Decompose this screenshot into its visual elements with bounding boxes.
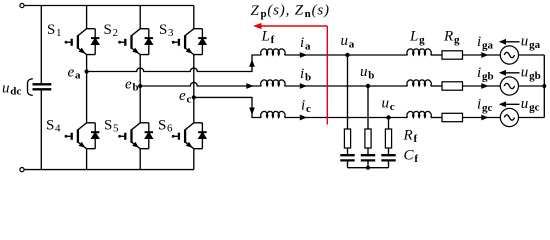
- wire: phase b Rg to source: [463, 85, 501, 87]
- arrow: iga: [481, 52, 488, 58]
- node ub: [366, 84, 370, 88]
- transistor S5 (IGBT with antiparallel diode): [118, 123, 153, 149]
- inductor Lg phase a: [407, 49, 431, 55]
- capacitor Cf branch a: [340, 155, 354, 160]
- resistor Rg phase b: [442, 82, 463, 90]
- source ugb (grid voltage): [500, 77, 518, 95]
- wire: leg b emitter lead to bottom rail: [139, 149, 141, 170]
- terminal: positive DC input circle: [20, 3, 24, 7]
- wire: phase a Lg to Rg: [431, 54, 442, 56]
- red impedance measurement line Zp Zn: [256, 26, 327, 125]
- wire: leg b midpoint vertical: [139, 55, 141, 123]
- resistor Rf branch b: [365, 129, 371, 148]
- source ugc (grid voltage): [500, 108, 518, 126]
- wire: branch c resistor to capacitor: [388, 148, 390, 155]
- wire: phase a Rg to source: [463, 54, 501, 56]
- wire: DC-link capacitor branch lower: [40, 90, 42, 169]
- wire: leg c emitter lead to bottom rail: [193, 149, 195, 170]
- arrow: ia: [300, 52, 307, 58]
- arrow: uga voltage reference: [503, 41, 520, 43]
- resistor Rg phase c: [442, 113, 463, 121]
- wire: phase b Lf to ub: [285, 85, 369, 87]
- inductor Lf phase a: [261, 49, 285, 55]
- wire: phase c Lg to Rg: [431, 117, 442, 119]
- inductor Lf phase c: [261, 111, 285, 117]
- wire: phase b source to right bus: [519, 85, 545, 87]
- wire: phase a from ea with hops over legs b,c then jog up: [87, 55, 262, 72]
- wire: branch b resistor to capacitor: [367, 148, 369, 155]
- wire: branch a capacitor to star bus: [347, 160, 349, 167]
- inductor Lf phase b: [261, 80, 285, 86]
- arrow: igb: [481, 83, 488, 89]
- wire: phase c Lf to uc: [285, 117, 389, 119]
- wire: leg b collector lead from top rail: [139, 6, 141, 29]
- arrow: ugb voltage reference: [503, 72, 520, 74]
- wire: leg a emitter lead to bottom rail: [86, 149, 88, 170]
- source uga (grid voltage): [500, 46, 518, 64]
- transistor S3 (IGBT with antiparallel diode): [172, 29, 207, 55]
- wire: leg c midpoint vertical: [193, 55, 195, 123]
- node: star-point junction: [366, 166, 370, 170]
- node ea: [85, 69, 89, 73]
- arrow: ic: [300, 115, 307, 121]
- transistor S2 (IGBT with antiparallel diode): [118, 29, 153, 55]
- wire: shunt branch b down from ub: [367, 86, 369, 129]
- arrow: phase a current up: [249, 60, 255, 67]
- brace for udc voltage: [28, 79, 33, 96]
- arrow: phase b current: [246, 83, 253, 89]
- capacitor Cf branch b: [361, 155, 375, 160]
- wire: grid neutral bus right: [543, 55, 545, 118]
- wire: leg c collector lead from top rail: [193, 6, 195, 29]
- wire: DC-link capacitor branch upper: [40, 6, 42, 84]
- wire: branch b capacitor to star bus: [367, 160, 369, 167]
- arrow: ugc voltage reference: [503, 103, 520, 105]
- wire: filter star-point bus: [348, 167, 389, 169]
- wire: bottom DC rail: [24, 169, 194, 171]
- wire: phase c source to right bus: [519, 117, 545, 119]
- wire: top DC rail: [24, 5, 194, 7]
- node uc: [386, 115, 390, 119]
- wire: phase b ub to Lg: [368, 85, 408, 87]
- wire: phase c from ec jog down: [194, 97, 261, 117]
- node: bus junction with phase b: [542, 84, 546, 88]
- capacitor Cf branch c: [381, 155, 395, 160]
- resistor Rf branch a: [344, 129, 350, 148]
- wire: branch a resistor to capacitor: [347, 148, 349, 155]
- wire: branch c capacitor to star bus: [388, 160, 390, 167]
- red arrow head: [253, 23, 262, 29]
- resistor Rf branch c: [385, 129, 391, 148]
- resistor Rg phase a: [442, 51, 463, 59]
- transistor S1 (IGBT with antiparallel diode): [65, 29, 100, 55]
- transistor S6 (IGBT with antiparallel diode): [172, 123, 207, 149]
- terminal: negative DC input circle: [20, 168, 24, 172]
- arrow: ib: [300, 83, 307, 89]
- wire: phase a ua to Lg: [348, 54, 408, 56]
- inductor Lg phase b: [407, 80, 431, 86]
- transistor S4 (IGBT with antiparallel diode): [65, 123, 100, 149]
- node eb: [138, 84, 142, 88]
- wire: phase b Lg to Rg: [431, 85, 442, 87]
- wire: phase a source to right bus: [519, 54, 545, 56]
- wire: phase b from eb with hop over leg c: [140, 83, 261, 86]
- wire: phase c Rg to source: [463, 117, 501, 119]
- wire: phase a Lf to ua: [285, 54, 348, 56]
- node ua: [345, 53, 349, 57]
- arrow: igc: [481, 115, 488, 121]
- node ec: [192, 95, 196, 99]
- wire: shunt branch a down from ua: [347, 55, 349, 129]
- capacitor Cdc plates: [33, 84, 52, 89]
- wire: leg a collector lead from top rail: [86, 6, 88, 29]
- arrow: phase c current down: [249, 108, 255, 115]
- wire: phase c uc to Lg: [389, 117, 408, 119]
- inductor Lg phase c: [407, 111, 431, 117]
- wire: shunt branch c down from uc: [388, 118, 390, 130]
- wire: leg a midpoint vertical: [86, 55, 88, 123]
